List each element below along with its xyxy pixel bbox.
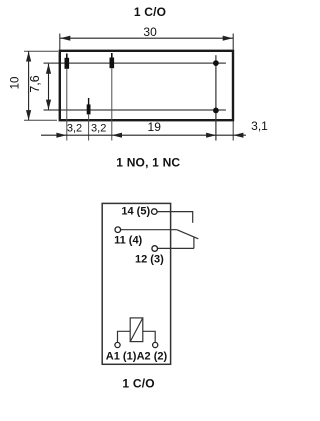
svg-text:3,1: 3,1 — [251, 119, 268, 133]
svg-text:14 (5): 14 (5) — [121, 206, 150, 218]
svg-text:12 (3): 12 (3) — [135, 253, 164, 265]
svg-text:A2 (2): A2 (2) — [137, 351, 168, 363]
svg-text:7,6: 7,6 — [28, 75, 42, 92]
svg-text:1 C/O: 1 C/O — [134, 5, 166, 19]
svg-text:1 NO, 1 NC: 1 NO, 1 NC — [116, 156, 180, 170]
svg-text:19: 19 — [148, 120, 162, 134]
svg-text:1 C/O: 1 C/O — [122, 377, 154, 391]
svg-text:A1 (1): A1 (1) — [106, 351, 137, 363]
svg-text:11 (4): 11 (4) — [114, 235, 142, 247]
svg-text:10: 10 — [10, 77, 22, 90]
svg-text:3,2: 3,2 — [91, 122, 106, 134]
svg-text:30: 30 — [143, 25, 157, 39]
svg-text:3,2: 3,2 — [67, 122, 82, 134]
